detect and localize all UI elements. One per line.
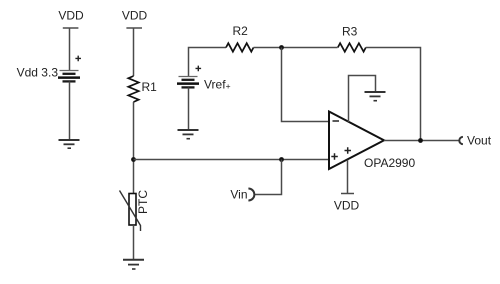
net label VDD (R1 branch) — [122, 9, 148, 29]
svg-text:R2: R2 — [233, 24, 249, 38]
wire — [188, 87, 190, 130]
wire — [189, 48, 227, 77]
resistor R3 — [338, 25, 366, 52]
svg-text:VDD: VDD — [122, 9, 148, 23]
thermistor PTC — [120, 190, 151, 231]
resistor R2 — [226, 24, 254, 52]
ground (Vref) — [178, 130, 199, 139]
svg-text:Vdd 3.3: Vdd 3.3 — [17, 66, 59, 80]
battery V1 Vdd 3.3 — [17, 56, 81, 82]
node junction (Vin) — [279, 157, 284, 162]
wire — [282, 48, 330, 122]
svg-text:Vin: Vin — [230, 188, 247, 202]
node junction (top wire / inverting input) — [279, 45, 284, 50]
terminal Vin — [230, 188, 254, 202]
wire (V- pin to ground) — [349, 76, 376, 123]
wire — [366, 48, 421, 141]
net label VDD (left battery) — [58, 9, 84, 29]
op-amp U1 OPA2990 — [329, 112, 415, 171]
svg-text:OPA2990: OPA2990 — [364, 156, 415, 170]
wire — [134, 159, 330, 161]
battery Vref — [177, 66, 231, 92]
ground (op-amp V-) — [365, 92, 386, 101]
ground (PTC) — [123, 260, 144, 269]
svg-text:Vout: Vout — [467, 133, 492, 147]
power VDD (op-amp supply) — [334, 194, 360, 213]
wire — [133, 102, 135, 194]
wire — [254, 47, 338, 49]
wire (V+ pin) — [347, 160, 349, 194]
wire — [69, 81, 71, 140]
svg-text:VDD: VDD — [58, 9, 84, 23]
svg-text:VDD: VDD — [334, 199, 360, 213]
wire (Vin) — [255, 160, 282, 195]
wire — [69, 28, 71, 70]
wire — [133, 28, 135, 76]
node junction (output) — [418, 138, 423, 143]
terminal Vout — [459, 133, 491, 147]
node junction (R1/PTC/opamp wire) — [131, 157, 136, 162]
resistor R1 — [128, 76, 157, 102]
svg-text:R1: R1 — [142, 80, 158, 94]
wire (output) — [384, 140, 459, 142]
svg-text:R3: R3 — [342, 25, 358, 39]
ground (left battery) — [59, 140, 80, 148]
wire — [133, 225, 135, 260]
svg-text:PTC: PTC — [136, 190, 150, 214]
